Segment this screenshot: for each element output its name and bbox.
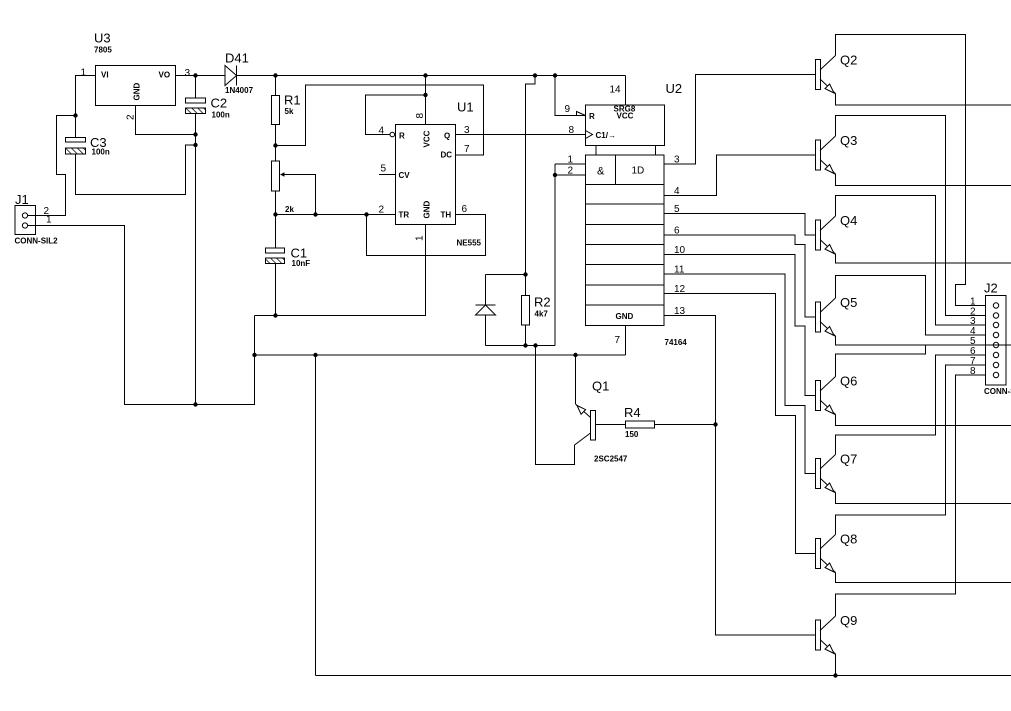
wire clamp diode top xyxy=(486,274,526,276)
wire U2 pin 11 to Q7 base xyxy=(664,274,816,474)
transistor Q7 collector leg xyxy=(820,455,836,470)
wire U2 pin 2 xyxy=(555,174,586,176)
svg-text:Q: Q xyxy=(444,132,450,141)
transistor Q6 emitter arrow xyxy=(825,405,834,414)
transistor Q1 base bar xyxy=(591,411,596,441)
svg-text:2: 2 xyxy=(568,166,574,177)
svg-text:U2: U2 xyxy=(666,81,683,96)
svg-text:5: 5 xyxy=(381,164,387,175)
node C3 top junction xyxy=(73,113,77,117)
transistor Q4 emitter leg xyxy=(820,240,836,255)
svg-text:5k: 5k xyxy=(285,107,294,116)
svg-text:Q2: Q2 xyxy=(840,53,857,68)
wire U2 pin 3 to Q2 base xyxy=(664,75,816,165)
resistor R2 body xyxy=(522,296,530,326)
svg-text:1: 1 xyxy=(81,68,87,79)
wire Q3 collector to J2 pin 2 xyxy=(836,116,986,316)
svg-text:Q3: Q3 xyxy=(840,133,857,148)
wire U3 pin 1 input xyxy=(76,76,96,116)
svg-text:74164: 74164 xyxy=(665,338,688,347)
wire C2 bottom xyxy=(195,114,197,135)
capacitor C3 plate 1 xyxy=(66,138,86,143)
wire Q7 collector to J2 pin 6 xyxy=(836,355,986,455)
svg-text:14: 14 xyxy=(610,85,622,96)
svg-text:GND: GND xyxy=(423,201,432,219)
svg-text:J1: J1 xyxy=(15,192,29,207)
wire J1 pin 1 ground return xyxy=(28,226,255,405)
transistor Q3 base bar xyxy=(816,140,821,170)
wire TH loop to TR node xyxy=(367,215,486,256)
wire ground vertical from C2 node xyxy=(195,135,197,405)
transistor Q1 collector leg xyxy=(575,433,591,445)
wire Q8 collector to J2 pin 7 xyxy=(836,365,986,535)
wire top rail VCC xyxy=(237,75,626,77)
svg-text:U1: U1 xyxy=(457,100,474,115)
svg-text:7805: 7805 xyxy=(94,46,112,55)
wire U3 pin 2 ground xyxy=(136,106,196,135)
transistor Q4 collector leg xyxy=(820,216,836,231)
node C2 ground junction xyxy=(193,132,197,136)
J1 pin 2 circle xyxy=(22,213,27,218)
svg-text:Q4: Q4 xyxy=(840,213,857,228)
wire Q6 emitter rail xyxy=(836,415,1011,426)
svg-text:1D: 1D xyxy=(632,166,645,177)
U2 row separator 4 xyxy=(586,244,665,246)
transistor Q7 emitter leg xyxy=(820,478,836,493)
wire Q6 collector to J2 pin 5 xyxy=(836,345,926,377)
svg-text:D41: D41 xyxy=(225,51,249,66)
capacitor C2 plate 2 hatched xyxy=(186,108,206,114)
resistor R4 body xyxy=(626,421,655,428)
wire U1 GND pin 1 to C1 node xyxy=(255,225,426,316)
U2 row separator 3 xyxy=(586,224,665,226)
node R2 bottom junction xyxy=(523,343,527,347)
svg-text:VCC: VCC xyxy=(617,112,634,121)
svg-text:9: 9 xyxy=(565,104,571,115)
node C1 bottom junction xyxy=(273,313,277,317)
svg-text:Q1: Q1 xyxy=(592,379,609,394)
transistor Q9 base bar xyxy=(816,620,821,650)
wire Q1 emitter to ground rail xyxy=(575,355,577,404)
svg-text:GND: GND xyxy=(616,312,634,321)
svg-text:3: 3 xyxy=(185,68,191,79)
potentiometer RV bottom wire xyxy=(275,191,277,215)
svg-text:10: 10 xyxy=(674,245,686,256)
wire R1 node to U1 DC loop xyxy=(276,85,484,155)
J2 pin 7 circle xyxy=(993,362,998,367)
svg-text:CONN-SIL8: CONN-SIL8 xyxy=(984,387,1011,396)
resistor R2 top wire xyxy=(525,275,527,296)
svg-text:1: 1 xyxy=(415,235,426,241)
node Q9 emitter junction xyxy=(833,673,837,677)
wire U2 pin 10 to Q6 base xyxy=(664,255,816,396)
node TR TH junction xyxy=(364,212,368,216)
capacitor C1 top wire xyxy=(275,215,277,249)
wire Q2 collector to J2 pin 1 xyxy=(836,35,986,306)
wire Q1 base to R4 xyxy=(596,424,626,426)
svg-text:R1: R1 xyxy=(284,93,301,108)
wire serial input up to U2 pins 1 2 xyxy=(554,164,556,346)
svg-text:TR: TR xyxy=(399,211,410,220)
transistor Q1 emitter leg xyxy=(576,404,591,418)
svg-text:C1/→: C1/→ xyxy=(596,131,616,140)
wire Q1 collector branch xyxy=(536,346,575,465)
diode D41 anode wire xyxy=(196,75,226,77)
J2 pin 8 circle xyxy=(993,372,998,377)
wire U2 pin 6 to Q5 base xyxy=(664,235,816,317)
U2 row separator 1 xyxy=(586,184,665,186)
wire U2 pin 13 to Q9 base xyxy=(664,316,816,636)
svg-text:TH: TH xyxy=(441,211,452,220)
capacitor C2 top wire xyxy=(195,76,197,99)
U1 reset pin bubble xyxy=(390,132,395,137)
wire Q5 emitter rail through J2 pin 5 xyxy=(836,336,1011,345)
svg-text:8: 8 xyxy=(569,125,575,136)
transistor Q5 base bar xyxy=(816,302,821,332)
node U1 VCC rail junction xyxy=(423,73,427,77)
svg-text:100n: 100n xyxy=(212,111,230,120)
svg-text:7: 7 xyxy=(464,144,470,155)
capacitor C3 top wire xyxy=(75,116,77,138)
wire Q8 emitter rail xyxy=(836,573,1011,583)
J2 pin 4 circle xyxy=(993,332,998,337)
diode D41 cathode bar xyxy=(236,66,238,86)
wire U1 output Q to U2 clock xyxy=(456,134,586,136)
svg-text:2: 2 xyxy=(379,205,385,216)
svg-text:R4: R4 xyxy=(624,405,641,420)
wire ground rail drop to bottom xyxy=(315,355,317,676)
svg-text:U3: U3 xyxy=(94,31,111,46)
svg-text:1: 1 xyxy=(46,215,52,226)
wire C3 bottom to ground loop xyxy=(76,145,196,195)
svg-text:4: 4 xyxy=(674,186,680,197)
wire Q3 emitter rail xyxy=(836,174,1011,186)
J2 pin 6 circle xyxy=(993,352,998,357)
node R4 pin13 junction xyxy=(713,422,717,426)
resistor R2 bottom wire xyxy=(525,325,527,346)
transistor Q4 base bar xyxy=(816,220,821,250)
transistor Q8 collector leg xyxy=(820,535,836,550)
wire serial input net horizontal xyxy=(486,345,556,347)
node ground loop junction xyxy=(193,402,197,406)
U2 clock wedge xyxy=(586,131,593,139)
svg-text:DC: DC xyxy=(441,151,453,160)
wire U1 CV stub pin 5 xyxy=(379,174,396,176)
transistor Q7 emitter arrow xyxy=(825,483,834,492)
node ground rail drop junction xyxy=(313,353,317,357)
transistor Q5 emitter arrow xyxy=(825,327,834,336)
svg-text:3: 3 xyxy=(674,155,680,166)
node wiper junction xyxy=(313,212,317,216)
wire C1 bottom xyxy=(275,264,277,316)
capacitor C1 plate 2 hatched xyxy=(266,258,285,264)
capacitor C2 plate 1 xyxy=(186,98,206,103)
svg-text:5: 5 xyxy=(674,204,680,215)
node RV bottom junction xyxy=(273,212,277,216)
transistor Q5 collector leg xyxy=(820,298,836,313)
connector J1 body xyxy=(15,206,36,235)
svg-text:7: 7 xyxy=(615,335,621,346)
wire U3 pin 3 output to rail xyxy=(176,75,196,77)
wire R4 to pin13 net xyxy=(655,424,716,426)
svg-text:CV: CV xyxy=(399,171,411,180)
svg-text:3: 3 xyxy=(464,125,470,136)
transistor Q6 emitter leg xyxy=(820,400,836,415)
RV wiper arrow xyxy=(280,172,285,177)
node R2 rail junction xyxy=(533,73,537,77)
wire U2 pin 5 to Q4 base xyxy=(664,214,816,236)
svg-text:Q9: Q9 xyxy=(840,613,857,628)
svg-text:J2: J2 xyxy=(984,281,998,296)
svg-text:R2: R2 xyxy=(534,295,551,310)
wire Q9 emitter to bottom rail xyxy=(835,654,837,676)
transistor Q3 emitter leg xyxy=(820,160,836,175)
node R1 bottom junction xyxy=(273,143,277,147)
transistor Q1 emitter arrow xyxy=(577,406,586,415)
svg-text:2: 2 xyxy=(126,114,137,120)
U2 pin 9 polarity triangle xyxy=(577,112,586,116)
svg-text:1N4007: 1N4007 xyxy=(225,86,254,95)
svg-text:2k: 2k xyxy=(285,205,294,214)
U2 control box left tab xyxy=(595,146,597,156)
U2 cell divider xyxy=(615,155,617,185)
node Q1 collector junction xyxy=(533,343,537,347)
svg-text:8: 8 xyxy=(970,366,976,377)
wire U2 pin 1 xyxy=(555,163,586,165)
svg-text:Q7: Q7 xyxy=(840,452,857,467)
svg-text:Q5: Q5 xyxy=(840,295,857,310)
clamp diode anode wire xyxy=(485,315,487,346)
wire U1 reset loop to VCC xyxy=(366,95,426,135)
svg-text:2SC2547: 2SC2547 xyxy=(594,455,628,464)
svg-text:NE555: NE555 xyxy=(457,239,482,248)
capacitor C3 plate 2 hatched xyxy=(66,148,86,154)
svg-text:C2: C2 xyxy=(211,96,228,111)
wire R2 feed from rail xyxy=(526,76,536,275)
svg-text:4k7: 4k7 xyxy=(535,310,549,319)
J2 pin 1 circle xyxy=(993,303,998,308)
svg-text:150: 150 xyxy=(625,430,639,439)
node ground rail left junction xyxy=(252,353,256,357)
node Q1 emitter junction xyxy=(573,353,577,357)
wire Q4 emitter rail xyxy=(836,254,1011,263)
svg-text:8: 8 xyxy=(415,113,426,119)
wire U2 pin 9 reset from rail xyxy=(555,76,586,116)
wire Q2 emitter rail xyxy=(836,94,1011,106)
transistor Q9 collector leg xyxy=(820,616,836,631)
svg-text:VI: VI xyxy=(101,71,109,80)
shift register U2 stage box xyxy=(586,155,665,326)
resistor R1 bottom wire xyxy=(275,125,277,146)
potentiometer RV body xyxy=(272,161,280,191)
wire RV wiper to TR node xyxy=(283,175,316,215)
node U2 pin 2 junction xyxy=(553,173,557,177)
svg-text:100n: 100n xyxy=(92,148,110,157)
transistor Q9 emitter arrow xyxy=(825,645,834,654)
clamp diode triangle xyxy=(476,305,496,315)
svg-text:11: 11 xyxy=(674,265,685,276)
connector J2 body xyxy=(986,296,1007,386)
svg-text:Q8: Q8 xyxy=(840,532,857,547)
transistor Q6 base bar xyxy=(816,381,821,411)
transistor Q2 collector leg xyxy=(820,56,836,71)
node U1 reset loop junction xyxy=(423,93,427,97)
transistor Q7 base bar xyxy=(816,459,821,489)
wire U2 pin 4 to Q3 base xyxy=(664,155,816,196)
potentiometer RV top wire xyxy=(275,146,277,162)
svg-text:VCC: VCC xyxy=(423,130,432,147)
transistor Q8 base bar xyxy=(816,539,821,569)
svg-text:10nF: 10nF xyxy=(292,259,311,268)
capacitor C1 plate 1 xyxy=(266,248,285,253)
svg-text:R: R xyxy=(399,132,405,141)
J2 pin 3 circle xyxy=(993,322,998,327)
wire Q4 collector to J2 pin 3 xyxy=(836,196,986,326)
U2 row separator 7 xyxy=(586,304,665,306)
svg-text:12: 12 xyxy=(674,284,686,295)
svg-text:R: R xyxy=(589,112,595,121)
wire bottom emitter rail xyxy=(316,675,1011,677)
transistor Q8 emitter arrow xyxy=(825,563,834,572)
transistor Q2 base bar xyxy=(816,60,821,90)
U2 row separator 5 xyxy=(586,264,665,266)
node R2 top junction xyxy=(523,272,527,276)
svg-text:6: 6 xyxy=(674,226,680,237)
diode D41 triangle xyxy=(225,66,237,86)
svg-text:VO: VO xyxy=(159,71,171,80)
transistor Q6 collector leg xyxy=(820,377,836,392)
U2 row separator 6 xyxy=(586,284,665,286)
svg-text:4: 4 xyxy=(379,126,385,137)
transistor Q4 emitter arrow xyxy=(825,245,834,254)
U2 control box right tab xyxy=(655,146,657,156)
transistor Q9 emitter leg xyxy=(820,640,836,655)
shift register U2 control box xyxy=(586,105,665,146)
wire U2 pin 12 to Q8 base xyxy=(664,294,816,554)
wire U2 pin 14 VCC xyxy=(625,76,627,106)
transistor Q5 emitter leg xyxy=(820,322,836,337)
resistor R1 top wire xyxy=(275,76,277,96)
transistor Q2 emitter arrow xyxy=(825,84,834,93)
svg-text:1: 1 xyxy=(568,155,574,166)
clamp diode cathode bar xyxy=(476,304,496,306)
regulator U3 body xyxy=(96,66,176,106)
wire ground rail xyxy=(255,354,626,356)
node U2 pin 9 rail junction xyxy=(553,73,557,77)
svg-text:GND: GND xyxy=(133,83,142,101)
svg-text:Q6: Q6 xyxy=(840,374,857,389)
J1 pin 1 circle xyxy=(22,223,27,228)
transistor Q2 emitter leg xyxy=(820,79,836,94)
wire U1 VCC pin 8 xyxy=(425,76,427,125)
J2 pin 2 circle xyxy=(993,313,998,318)
J2 pin 5 circle xyxy=(993,342,998,347)
op-amp timer U1 body xyxy=(396,125,456,225)
clamp diode cathode wire xyxy=(485,275,487,306)
U2 row separator 2 xyxy=(586,203,665,205)
svg-text:CONN-SIL2: CONN-SIL2 xyxy=(15,237,59,246)
wire Q9 collector to J2 pin 8 xyxy=(836,375,986,616)
wire TR net xyxy=(276,214,396,216)
resistor R1 body xyxy=(272,96,280,125)
svg-text:13: 13 xyxy=(674,306,686,317)
wire U2 pin 7 ground xyxy=(625,326,627,356)
node VO rail junction xyxy=(193,73,197,77)
svg-text:&: & xyxy=(597,166,605,178)
wire J1 pin 2 to C3 node xyxy=(28,116,76,216)
transistor Q3 emitter arrow xyxy=(825,165,834,174)
wire Q5 collector to J2 pin 4 xyxy=(836,276,986,336)
node R1 rail junction xyxy=(273,73,277,77)
wire Q7 emitter rail xyxy=(836,493,1011,504)
transistor Q8 emitter leg xyxy=(820,558,836,573)
transistor Q3 collector leg xyxy=(820,136,836,151)
svg-text:6: 6 xyxy=(462,204,468,215)
node C3 loop junction xyxy=(193,143,197,147)
